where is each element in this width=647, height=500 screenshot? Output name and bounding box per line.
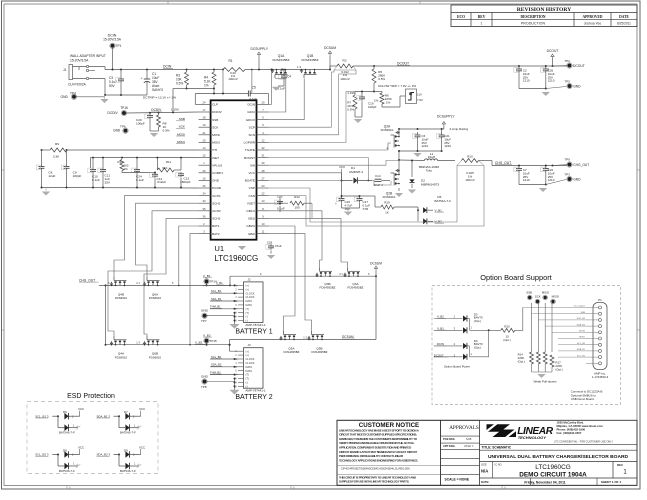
svg-text:CSN: CSN (248, 194, 255, 198)
svg-text:SCL_B1: SCL_B1 (211, 289, 222, 293)
U1 pin 30 SW (257, 164, 269, 166)
svg-text:BAT54S-7-F: BAT54S-7-F (120, 431, 136, 435)
svg-text:TP16: TP16 (120, 106, 128, 110)
svg-text:FDS6910: FDS6910 (149, 296, 162, 300)
svg-text:16V: 16V (345, 207, 350, 211)
svg-text:VCC: VCC (78, 407, 84, 411)
svg-text:FDS6910: FDS6910 (381, 128, 394, 132)
svg-text:SCH2: SCH2 (212, 217, 221, 221)
U1 pin 13 VSET (257, 202, 269, 204)
svg-text:BAT1: BAT1 (212, 224, 220, 228)
svg-text:SDA_B2: SDA_B2 (577, 323, 586, 326)
svg-text:CLOCK: CLOCK (246, 361, 255, 365)
ground J2 (229, 324, 239, 329)
svg-text:J1: J1 (63, 68, 67, 72)
svg-text:TGATE: TGATE (245, 148, 255, 152)
svg-text:1210: 1210 (548, 178, 555, 182)
svg-text:34: 34 (203, 192, 206, 196)
svg-text:SCK: SCK (179, 125, 186, 129)
svg-text:(Opt.): (Opt.) (555, 368, 562, 372)
svg-text:ISET: ISET (212, 156, 219, 160)
wire V_B1 row (202, 284, 238, 286)
svg-text:100pF: 100pF (73, 174, 82, 178)
svg-text:DATA: DATA (246, 299, 253, 303)
svg-text:100pF: 100pF (136, 122, 145, 126)
svg-text:+: + (335, 202, 337, 206)
svg-text:3 1: 3 1 (339, 272, 343, 276)
svg-text:VCC: VCC (139, 445, 145, 449)
svg-text:BATTERY 1: BATTERY 1 (235, 328, 272, 335)
connector J2 BATTERY 1 (244, 282, 264, 323)
svg-text:SCL_B1 3: SCL_B1 3 (35, 414, 49, 418)
svg-text:REV.: REV. (617, 463, 623, 467)
svg-text:A: A (504, 486, 506, 490)
wire SCH1 to Q6A gate (136, 203, 199, 277)
wire rail after R1 (245, 69, 330, 71)
U1 pin 32 TGATE (257, 149, 269, 151)
svg-text:GND: GND (573, 84, 581, 88)
wire DCDIV divider (187, 88, 215, 90)
svg-text:C18: C18 (267, 241, 273, 245)
svg-text:SCB: SCB (466, 437, 472, 441)
svg-text:13: 13 (262, 199, 265, 203)
svg-text:PCB DES.: PCB DES. (443, 437, 456, 441)
svg-text:DCOUT: DCOUT (573, 64, 585, 68)
svg-text:19: 19 (203, 123, 206, 127)
U1 pin 3 BAT2 (199, 233, 211, 235)
svg-text:SANYO: SANYO (152, 88, 164, 92)
wire BGATE to Q2B gate (269, 180, 392, 185)
svg-text:CHG_OUT: CHG_OUT (495, 161, 511, 165)
svg-text:100pF: 100pF (368, 105, 377, 109)
svg-text:12uF: 12uF (48, 174, 55, 178)
svg-text:21: 21 (203, 131, 206, 135)
svg-text:DCIN: DCIN (163, 65, 172, 69)
wire pulldown gnd rail (532, 371, 553, 373)
U1 pin 28 VCC (257, 172, 269, 174)
op-amp U1 body LTC1960CG (211, 100, 257, 239)
svg-text:Fax: (408)434-0507: Fax: (408)434-0507 (557, 431, 582, 435)
wire BAT2 to charge rail 2 (190, 234, 199, 345)
wire ITH rail (42, 149, 51, 151)
svg-text:ITH: ITH (212, 148, 217, 152)
wire THM_B2 (210, 374, 238, 376)
schematic file path line (337, 465, 441, 467)
svg-text:(T): (T) (246, 307, 249, 311)
svg-text:THM_B2: THM_B2 (210, 370, 221, 374)
svg-text:FDS6910: FDS6910 (149, 355, 162, 359)
ground C18 (267, 255, 275, 259)
svg-text:32: 32 (262, 146, 265, 150)
wire BAT1 to charge rail 1 (179, 226, 199, 285)
wire ISET rail (91, 158, 199, 168)
svg-text:SCK: SCK (212, 125, 219, 129)
svg-text:BAT54S-7-F: BAT54S-7-F (120, 469, 136, 473)
wire SDA_B2 (210, 366, 238, 368)
svg-text:15: 15 (203, 154, 206, 158)
svg-text:GND: GND (212, 179, 220, 183)
svg-text:SCN: SCN (248, 133, 255, 137)
svg-text:(T): (T) (246, 377, 249, 381)
U1 pin 33 SCH1 (199, 202, 211, 204)
U1 pin 29 DCIN (257, 103, 269, 105)
resistor R5 (372, 69, 376, 83)
svg-text:FDS4935BZ: FDS4935BZ (272, 58, 289, 62)
svg-text:IC NO.: IC NO. (495, 463, 503, 466)
wire DCIN pin up (269, 103, 272, 105)
wire R7 C19 gnd (355, 116, 362, 118)
svg-text:SCL_B2 3: SCL_B2 3 (35, 453, 49, 457)
svg-text:29: 29 (262, 100, 265, 104)
svg-text:1: 1 (481, 22, 483, 26)
svg-text:24: 24 (203, 100, 206, 104)
wire LOPWR to DCLOW comparator (269, 92, 356, 143)
svg-text:MISO: MISO (542, 291, 550, 295)
svg-text:MOSI: MOSI (552, 295, 560, 299)
svg-text:0.5%: 0.5% (176, 82, 183, 86)
svg-text:BAT54A-7-F: BAT54A-7-F (435, 199, 452, 203)
svg-text:MISO: MISO (177, 140, 186, 144)
wire charge rail 2 (106, 344, 230, 346)
wire GB1O to Q3B gate (269, 211, 323, 268)
svg-text:CLOCK: CLOCK (246, 291, 255, 295)
wire SCL_B1 (210, 292, 238, 294)
svg-text:LOPWR: LOPWR (244, 141, 256, 145)
svg-text:GB1I: GB1I (248, 217, 255, 221)
svg-text:A: A (293, 486, 295, 490)
svg-text:THM_B1: THM_B1 (210, 305, 221, 309)
svg-text:35V: 35V (105, 181, 111, 185)
svg-text:SCK: SCK (535, 295, 541, 299)
wire comparator (381, 104, 383, 107)
wire R16 C12 node (122, 172, 155, 174)
svg-text:R11: R11 (166, 160, 171, 164)
wire CHG caps gnd (519, 184, 546, 186)
svg-text:0.1uF: 0.1uF (277, 207, 285, 211)
svg-text:UNIVERSAL DUAL BATTERY CHARGER: UNIVERSAL DUAL BATTERY CHARGER/SELECTOR … (488, 454, 629, 460)
svg-text:SDA_B1: SDA_B1 (577, 348, 586, 351)
svg-text:MOSI: MOSI (212, 133, 220, 137)
svg-text:16: 16 (203, 176, 206, 180)
U1 pin 19 SCK (199, 126, 211, 128)
svg-text:MBRM140T3: MBRM140T3 (421, 183, 440, 187)
svg-text:CHG_OUT: CHG_OUT (79, 278, 95, 282)
svg-text:FDS4935BZ: FDS4935BZ (284, 350, 300, 354)
svg-text:GB1O: GB1O (246, 209, 255, 213)
wire SW to L1 node (269, 161, 400, 166)
svg-text:GCH1: GCH1 (212, 194, 221, 198)
svg-text:CSP: CSP (249, 186, 255, 190)
wire R13 to Vcc option row (515, 308, 523, 331)
capacitor C9 (66, 164, 68, 167)
svg-text:SCP: SCP (249, 125, 255, 129)
svg-text:CMDSH-3: CMDSH-3 (349, 170, 363, 174)
svg-text:23: 23 (262, 184, 265, 188)
U1 pin 5 SCP (257, 126, 269, 128)
ground C4 (272, 87, 280, 91)
svg-text:12: 12 (262, 138, 265, 142)
svg-text:BGATE: BGATE (245, 179, 255, 183)
svg-text:DCOUT: DCOUT (397, 62, 409, 66)
svg-text:100mV: 100mV (228, 77, 238, 81)
svg-text:GND: GND (61, 95, 69, 99)
svg-text:1%: 1% (204, 84, 209, 88)
wire charge rail 1 (99, 284, 229, 286)
svg-text:R2: R2 (343, 59, 347, 63)
svg-text:DCLOW TRIP = 7.9V +/- 3%: DCLOW TRIP = 7.9V +/- 3% (378, 84, 416, 88)
svg-text:USB Demo Board.: USB Demo Board. (571, 397, 595, 401)
svg-text:GCH2: GCH2 (212, 209, 221, 213)
svg-text:30: 30 (262, 161, 265, 165)
ground DCOUT caps (542, 92, 550, 96)
svg-text:CLP: CLP (212, 103, 218, 107)
svg-text:TECHNOLOGY APPLICATIONS ENGINE: TECHNOLOGY APPLICATIONS ENGINEERING FOR … (339, 458, 418, 462)
svg-text:22: 22 (262, 192, 265, 196)
svg-text:TECHNOLOGY: TECHNOLOGY (518, 435, 547, 440)
wire DCIN rail (89, 66, 105, 68)
svg-text:CHG_OUT: CHG_OUT (573, 163, 589, 167)
svg-text:REVISION HISTORY: REVISION HISTORY (517, 7, 572, 13)
svg-text:BOOST: BOOST (244, 156, 255, 160)
U1 pin 31 BOOST (257, 157, 269, 159)
svg-text:DATE:: DATE: (481, 480, 489, 484)
svg-text:C:\P 40 5-PROJECTS\1904A\DC190: C:\P 40 5-PROJECTS\1904A\DC1904C-A2\SCH\… (341, 467, 410, 470)
svg-text:GND: GND (201, 309, 209, 313)
svg-text:(-): (-) (246, 381, 249, 385)
svg-text:GB2I: GB2I (248, 232, 255, 236)
svg-text:SDA_B2: SDA_B2 (211, 363, 222, 367)
svg-text:MOSI: MOSI (177, 132, 185, 136)
wire charge rail1 to V_B1 row (191, 285, 238, 287)
svg-text:DATA: DATA (246, 365, 253, 369)
U1 pin 21 MOSI (199, 134, 211, 136)
wire L1 (399, 159, 425, 162)
ground CHG caps (539, 188, 547, 192)
wire GB2O to Q5A gate (269, 226, 296, 331)
svg-text:1-1734530-3: 1-1734530-3 (592, 375, 609, 379)
connector J3 BATTERY 2 (244, 348, 264, 389)
U1 pin 23 CSP (257, 187, 269, 189)
capacitor C12 (154, 173, 156, 175)
U1 pin 15 ISET (199, 157, 211, 159)
svg-text:J3: J3 (248, 343, 251, 347)
wire left edge CHG_OUT vertical (65, 287, 67, 289)
svg-text:DCSUM: DCSUM (370, 262, 382, 266)
svg-text:8/25/2011: 8/25/2011 (617, 22, 631, 26)
svg-text:1 3: 1 3 (297, 65, 301, 69)
wire R12 to VCC run (311, 203, 313, 218)
svg-text:FDS6910: FDS6910 (115, 296, 128, 300)
svg-text:1%: 1% (124, 167, 129, 171)
svg-text:U1: U1 (214, 244, 224, 253)
wire D3 output (470, 329, 501, 331)
svg-text:17: 17 (203, 108, 206, 112)
ground ladder (45, 188, 47, 192)
svg-text:+: + (141, 76, 143, 80)
svg-text:0.5%: 0.5% (163, 129, 170, 133)
resistor R7 (353, 95, 357, 109)
svg-text:DCOUT: DCOUT (547, 49, 559, 53)
svg-text:.47uF: .47uF (274, 244, 282, 248)
wire GND bus J3 (234, 379, 236, 390)
svg-text:1%: 1% (386, 100, 391, 104)
svg-text:CLOCK: CLOCK (246, 357, 255, 361)
svg-text:SDA_B1: SDA_B1 (211, 297, 222, 301)
linear technology logo (488, 424, 510, 432)
svg-text:SDA_B2 3: SDA_B2 3 (97, 453, 111, 457)
wire ladder ground rail (42, 187, 199, 190)
wire GND bus J2 (234, 313, 236, 324)
svg-text:X7R: X7R (363, 207, 370, 211)
svg-text:35: 35 (203, 207, 206, 211)
svg-text:R9: R9 (55, 142, 59, 146)
svg-text:7.9V: 7.9V (417, 98, 423, 102)
wire J1 ground branch (89, 78, 105, 80)
svg-text:GND: GND (201, 375, 209, 379)
svg-text:FDS4935BZ: FDS4935BZ (320, 286, 336, 290)
wire TGATE to Q2A gate (269, 143, 392, 150)
svg-text:1210: 1210 (422, 144, 429, 148)
wire VCC pin run (269, 173, 342, 181)
wire GDCO to Q1B gate (269, 79, 305, 120)
svg-text:TP9: TP9 (565, 158, 571, 162)
ground J3 (229, 390, 239, 395)
ground symbol input (104, 95, 106, 99)
wire DCOUT rail (353, 65, 567, 67)
wire R5 R6 node (355, 91, 374, 93)
svg-text:0.5%: 0.5% (378, 77, 385, 81)
svg-text:DATE: DATE (619, 15, 629, 19)
svg-text:1.19V: 1.19V (171, 108, 179, 112)
svg-text:PGND: PGND (212, 186, 222, 190)
wire Q2A vertical (398, 129, 400, 136)
svg-text:1210: 1210 (523, 178, 530, 182)
svg-text:(+): (+) (246, 284, 249, 288)
svg-text:Joshua Yee: Joshua Yee (584, 22, 602, 26)
svg-text:D8: D8 (63, 448, 67, 452)
svg-text:C4: C4 (287, 75, 291, 79)
svg-text:31: 31 (262, 154, 265, 158)
wire DCSUM to R2 (329, 66, 331, 70)
svg-text:36: 36 (203, 214, 206, 218)
svg-text:11V: 11V (417, 92, 422, 96)
svg-text:DCIN: DCIN (437, 342, 444, 346)
capacitor C1 polarized (146, 77, 148, 80)
svg-text:DCTRIP = 13.1V +/- 3%: DCTRIP = 13.1V +/- 3% (143, 96, 176, 100)
title block outline (337, 420, 637, 485)
svg-text:APP ENG.: APP ENG. (443, 444, 456, 448)
svg-text:VCC: VCC (78, 445, 84, 449)
svg-text:GDCI: GDCI (247, 110, 255, 114)
wire DCOUT caps gnd (519, 88, 546, 90)
resistor R10 sense (462, 159, 479, 163)
svg-text:2 Amp Rating: 2 Amp Rating (450, 127, 469, 131)
U1 pin 34 GCH1 (199, 195, 211, 197)
wire SCP to R2 kelvin (269, 70, 335, 127)
wire ground rail input (105, 94, 147, 96)
wire SCH2 to Q6B gate (144, 218, 199, 336)
wire C20 R8 gnd (150, 130, 159, 132)
svg-text:11: 11 (262, 230, 265, 234)
svg-text:SSB: SSB (179, 117, 185, 121)
U1 pin 16 GND (199, 179, 211, 181)
svg-text:V_B1: V_B1 (435, 208, 443, 212)
capacitor C8 (41, 164, 43, 167)
U1 pin 8 GB1O (257, 210, 269, 212)
svg-text:DCSUM: DCSUM (324, 46, 336, 50)
comparator hysteresis symbol (406, 89, 417, 104)
svg-text:FDS6910: FDS6910 (383, 195, 396, 199)
svg-text:(T): (T) (246, 311, 249, 315)
wire V_B2 row (230, 345, 238, 352)
U1 pin 9 GB1I (257, 217, 269, 219)
svg-text:PRODUCTION: PRODUCTION (521, 22, 546, 26)
svg-text:SCH1: SCH1 (212, 201, 221, 205)
ground Q2B (395, 193, 403, 197)
wire GCH2 to Q4A gate (108, 211, 199, 337)
U1 pin 7 GDCI (257, 111, 269, 113)
svg-text:GND: GND (113, 129, 121, 133)
svg-text:TP5: TP5 (565, 80, 571, 84)
wire BOOST to D1 C14 node (269, 158, 369, 181)
svg-text:V_B2: V_B2 (437, 315, 444, 319)
svg-text:1210: 1210 (444, 144, 451, 148)
svg-text:SUPPLIED FOR USE WITH LINEAR T: SUPPLIED FOR USE WITH LINEAR TECHNOLOGY … (339, 480, 409, 484)
svg-text:TP4: TP4 (70, 91, 76, 95)
svg-text:(+): (+) (246, 349, 249, 353)
wire VCC node (341, 181, 343, 197)
svg-text:TP3: TP3 (565, 173, 571, 177)
svg-text:(+): (+) (246, 287, 249, 291)
svg-text:V_B2: V_B2 (195, 340, 203, 344)
svg-text:Toko: Toko (426, 169, 433, 173)
svg-text:1%: 1% (374, 99, 379, 103)
svg-text:14: 14 (203, 146, 206, 150)
svg-text:P1: P1 (598, 298, 602, 302)
svg-text:ECO: ECO (457, 15, 465, 19)
svg-text:AMP-787441-1: AMP-787441-1 (245, 323, 266, 327)
svg-text:COMP1: COMP1 (212, 171, 223, 175)
ground U1 top symbol (238, 246, 246, 250)
svg-text:1K: 1K (385, 211, 389, 215)
svg-text:20: 20 (203, 138, 206, 142)
svg-text:BAT54S-7-F: BAT54S-7-F (59, 431, 75, 435)
svg-text:1 3: 1 3 (303, 336, 307, 340)
svg-text:D7: D7 (124, 410, 128, 414)
wire THM_B1 (210, 308, 238, 310)
wire C5 loop to DCIN pin (195, 93, 246, 95)
svg-text:51K: 51K (162, 166, 167, 170)
wire DCSUM joining vertical (375, 276, 377, 339)
U1 pin 12 LOPWR (257, 141, 269, 143)
wire Q2A drain rail (399, 128, 444, 130)
svg-text:APPROVALS: APPROVALS (449, 425, 479, 431)
wire GB1I to Q3A gate (269, 218, 348, 268)
U1 pin 22 CSN (257, 195, 269, 197)
svg-text:50V: 50V (109, 84, 116, 88)
svg-text:FDS6910: FDS6910 (115, 355, 128, 359)
svg-text:MISO: MISO (212, 141, 221, 145)
test point TP5 GND (568, 84, 572, 88)
capacitor C10 (92, 167, 94, 170)
svg-text:SHEET 1 OF 1: SHEET 1 OF 1 (601, 480, 621, 484)
svg-text:(Opt.): (Opt.) (518, 360, 525, 364)
wire V_B1 to rail A (229, 276, 231, 285)
U1 pin 14 ITH (199, 149, 211, 151)
ground C20 (150, 133, 158, 137)
svg-text:Vcc_Option: Vcc_Option (574, 305, 586, 308)
wire TP1 to DCIN rail (112, 48, 114, 70)
